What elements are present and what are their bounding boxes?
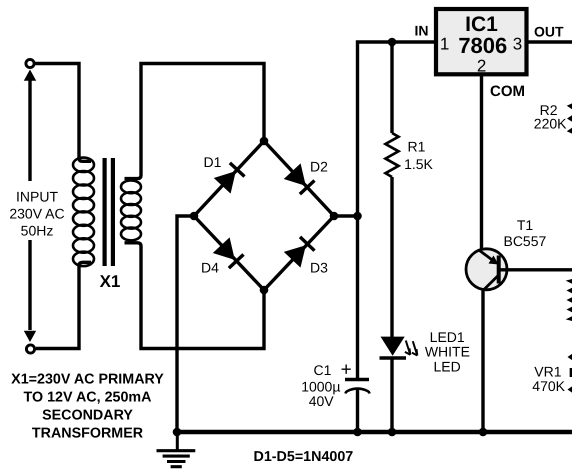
- wire: transistor base to right edge: [499, 268, 572, 271]
- wire: positive rail upper segment: [358, 42, 435, 379]
- svg-text:D3: D3: [310, 260, 328, 276]
- diode D3: [284, 236, 316, 268]
- junction: bridge left node: [190, 212, 199, 221]
- svg-text:TRANSFORMER: TRANSFORMER: [32, 426, 144, 442]
- LED1 diode: [380, 337, 407, 358]
- svg-text:230V AC: 230V AC: [9, 206, 64, 222]
- junction: ground rail at ground symbol: [173, 428, 182, 437]
- ground rail: [177, 430, 572, 435]
- wire: transistor collector to ground rail: [481, 291, 484, 433]
- wire: bridge left node to ground rail: [177, 216, 194, 432]
- wire: LED1 to ground rail: [390, 358, 393, 432]
- VR1 mark: [570, 368, 572, 377]
- wire: bridge right node to positive rail: [334, 214, 358, 217]
- VR1 wiper arrow lower: [568, 385, 572, 394]
- svg-text:D4: D4: [201, 260, 219, 276]
- transformer X1 secondary coil: [121, 180, 141, 240]
- svg-text:IN: IN: [415, 23, 429, 39]
- resistor R2 (cropped at edge): [570, 102, 572, 136]
- resistor R1: [386, 133, 399, 177]
- bridge diamond wires: [194, 141, 334, 290]
- transformer core: [103, 158, 116, 266]
- junction: bridge bottom node: [260, 286, 269, 295]
- svg-text:TO 12V AC, 250mA: TO 12V AC, 250mA: [24, 390, 152, 406]
- IC1 7806 box: [436, 9, 527, 74]
- wire: primary bottom to bottom terminal: [36, 262, 91, 348]
- svg-text:BC557: BC557: [503, 233, 546, 249]
- wire: OUT to right edge: [529, 40, 572, 43]
- wire: IC pin 2 down to transistor: [480, 76, 483, 250]
- junction: C1 at ground rail: [353, 428, 362, 437]
- wire: positive rail lower segment below C1: [356, 389, 359, 432]
- svg-text:X1: X1: [100, 272, 121, 291]
- capacitor C1: [345, 380, 370, 394]
- svg-text:C1: C1: [314, 362, 332, 378]
- VR1 wiper arrow upper: [568, 353, 572, 362]
- svg-text:1000µ: 1000µ: [301, 379, 340, 395]
- input arrow down: [24, 240, 36, 342]
- input arrow up: [24, 70, 36, 182]
- junction: bridge output at positive rail: [353, 212, 362, 221]
- svg-text:D2: D2: [310, 159, 328, 175]
- svg-text:40V: 40V: [309, 393, 335, 409]
- svg-text:R1: R1: [408, 139, 426, 155]
- wire: R1 to LED1: [390, 177, 393, 338]
- svg-text:1.5K: 1.5K: [404, 156, 433, 172]
- svg-text:220K: 220K: [534, 116, 567, 132]
- wire: top terminal to primary top: [35, 64, 91, 162]
- svg-text:+: +: [341, 360, 352, 381]
- svg-text:7806: 7806: [458, 33, 507, 58]
- LED1 light arrows: [405, 341, 417, 356]
- junction: bridge top node: [260, 137, 269, 146]
- diode D2: [284, 163, 316, 195]
- transformer X1 primary coil: [73, 158, 94, 267]
- svg-text:OUT: OUT: [534, 24, 564, 40]
- svg-text:LED: LED: [433, 358, 460, 374]
- svg-text:1: 1: [440, 35, 449, 54]
- wire: secondary top to bridge top node: [125, 64, 265, 179]
- junction: collector at ground rail: [479, 428, 488, 437]
- junction: bridge right node: [330, 212, 339, 221]
- diode D4: [213, 237, 245, 269]
- svg-text:D1: D1: [204, 154, 222, 170]
- wire: R1 branch top: [390, 42, 393, 133]
- svg-text:X1=230V AC PRIMARY: X1=230V AC PRIMARY: [11, 372, 164, 388]
- svg-text:470K: 470K: [532, 378, 565, 394]
- ground symbol: [157, 432, 196, 467]
- transistor T1: [466, 249, 507, 291]
- diode D1: [214, 162, 246, 194]
- svg-text:3: 3: [513, 35, 522, 54]
- svg-text:T1: T1: [517, 217, 534, 233]
- junction: LED1 at ground rail: [388, 428, 397, 437]
- svg-text:SECONDARY: SECONDARY: [42, 408, 133, 424]
- svg-text:2: 2: [477, 57, 486, 76]
- svg-text:50Hz: 50Hz: [21, 222, 54, 238]
- junction: R1 branch at IN wire: [388, 38, 397, 47]
- svg-text:COM: COM: [490, 83, 525, 100]
- svg-text:INPUT: INPUT: [16, 189, 58, 205]
- input terminal bottom circle: [26, 345, 34, 353]
- input terminal top circle: [26, 59, 34, 67]
- wire: secondary bottom to bridge bottom node: [125, 243, 265, 349]
- svg-text:D1-D5=1N4007: D1-D5=1N4007: [254, 449, 354, 465]
- potentiometer VR1 (cropped at edge): [570, 279, 572, 322]
- svg-text:WHITE: WHITE: [425, 343, 470, 359]
